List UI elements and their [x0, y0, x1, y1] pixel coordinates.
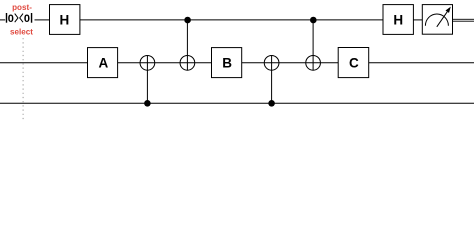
wire q1 segment A to B [118, 62, 212, 64]
classical double wire upper line [453, 18, 474, 21]
meter arc [425, 14, 448, 26]
svg-text:H: H [393, 12, 403, 27]
cnot2 control dot (top wire) [184, 17, 191, 24]
classical double wire lower line [453, 20, 474, 23]
meter needle arrowhead [446, 7, 451, 13]
wire q0 segment between projector and H1 [35, 19, 50, 21]
cnot2 target circle [180, 56, 195, 71]
svg-text:A: A [99, 55, 109, 70]
wire q1 segment right [368, 62, 474, 64]
wire q0 main segment H1 to H2 [80, 19, 383, 21]
svg-text:H: H [60, 12, 70, 27]
wire q1 segment left [0, 62, 88, 64]
gate A box [88, 48, 118, 78]
wire q2 bottom [0, 102, 474, 104]
meter needle [437, 12, 448, 27]
wire q1 segment B to C [242, 62, 338, 64]
cnot3 vertical line [271, 55, 273, 103]
wire q0 segment H2 to meter [414, 19, 423, 21]
cnot1 vertical line [146, 55, 148, 103]
projector left angle bracket [20, 14, 23, 23]
svg-text:B: B [222, 55, 232, 70]
red dotted post-selection cut line [22, 38, 24, 122]
gate H2 box [383, 5, 413, 35]
svg-text:0: 0 [8, 13, 14, 25]
svg-text:C: C [349, 55, 359, 70]
svg-text:select: select [10, 28, 33, 37]
cnot1 target circle [140, 56, 155, 71]
svg-text:0: 0 [24, 13, 30, 25]
projector right angle bracket [15, 14, 18, 23]
cnot4 control dot (top wire) [310, 17, 317, 24]
projector |0><0| : left bar [6, 13, 7, 23]
meter box [422, 5, 452, 35]
cnot4 vertical line [312, 20, 314, 70]
cnot2 vertical line [186, 20, 188, 70]
wire q0 left stub [0, 19, 5, 21]
cnot1 control dot (bottom wire) [144, 100, 151, 107]
gate C box [338, 48, 369, 78]
projector right bar [31, 13, 32, 23]
cnot3 control dot (bottom wire) [268, 100, 275, 107]
cnot4 target circle [306, 56, 321, 71]
gate H1 box [50, 5, 80, 35]
svg-text:post-: post- [12, 3, 32, 12]
gate B box [212, 48, 242, 78]
cnot3 target circle [264, 56, 279, 71]
